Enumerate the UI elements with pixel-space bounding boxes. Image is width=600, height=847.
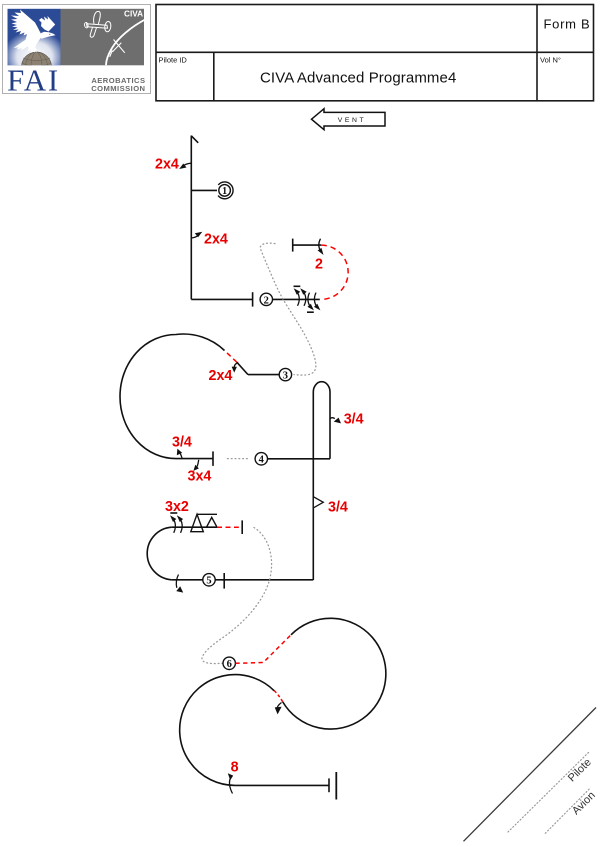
header table — [156, 5, 594, 101]
final bar — [335, 772, 337, 800]
end tick — [212, 451, 214, 466]
spin triangles — [191, 514, 217, 531]
svg-text:VENT: VENT — [338, 117, 367, 124]
connector 3 to 4 — [228, 458, 250, 460]
roll arrow fig1 lower — [191, 232, 202, 238]
top exit line — [293, 244, 322, 246]
svg-text:2: 2 — [264, 295, 269, 306]
svg-text:6: 6 — [227, 659, 232, 670]
circle 2 — [260, 293, 272, 305]
svg-text:8: 8 — [231, 760, 239, 776]
svg-text:4: 4 — [259, 455, 265, 466]
svg-text:COMMISSION: COMMISSION — [91, 84, 145, 93]
connector 5 to 6 — [202, 528, 272, 664]
down line — [312, 392, 314, 580]
svg-text:Form B: Form B — [544, 17, 591, 32]
diagonal — [237, 362, 248, 374]
svg-text:2x4: 2x4 — [204, 232, 228, 248]
roll arrow fig1 upper — [179, 163, 191, 169]
red dashed segment on lower loop — [274, 690, 283, 702]
half roll arrow near cross — [277, 703, 282, 711]
svg-text:3/4: 3/4 — [172, 435, 192, 451]
exit horizontal — [191, 298, 252, 300]
loop — [120, 334, 225, 459]
end tick — [252, 292, 254, 306]
svg-text:2x4: 2x4 — [209, 368, 233, 384]
arrow up — [180, 454, 182, 459]
red dashed inverted — [217, 526, 239, 528]
rolls 3x2 — [173, 518, 182, 533]
signature diagonals — [464, 708, 597, 842]
svg-text:Pilote ID: Pilote ID — [159, 56, 188, 65]
fig4 end tick — [223, 573, 225, 589]
entry line — [273, 298, 320, 300]
roll arrow on bottom line — [176, 575, 178, 588]
glow behind globe — [3, 30, 67, 84]
circle 6 — [223, 657, 235, 669]
end tick — [328, 778, 330, 792]
svg-text:1: 1 — [222, 186, 227, 197]
circle 3 — [279, 368, 291, 380]
flick triangle on down line — [313, 497, 323, 508]
svg-text:FAI: FAI — [7, 62, 60, 97]
bottom line — [171, 579, 313, 581]
svg-text:3: 3 — [283, 371, 288, 382]
circle 1 (double) — [218, 182, 233, 199]
roll arrows down-right pair — [308, 293, 317, 308]
eagle left wing + body — [11, 10, 41, 53]
arrow on diagonal — [234, 363, 238, 368]
exit line — [235, 784, 329, 786]
roll arrow on exit — [229, 777, 232, 794]
upper loop — [283, 618, 386, 729]
up line — [329, 392, 331, 459]
svg-text:5: 5 — [206, 576, 211, 587]
FAI blue panel — [8, 9, 61, 66]
circle 4 — [255, 453, 267, 465]
plane fuselage — [84, 11, 111, 37]
svg-text:3x4: 3x4 — [188, 469, 212, 485]
svg-text:CIVA Advanced Programme4: CIVA Advanced Programme4 — [260, 70, 456, 87]
connector 2 to 3 — [260, 243, 316, 375]
VENT wind arrow — [312, 109, 386, 130]
svg-text:2: 2 — [315, 257, 323, 273]
entry line — [268, 458, 331, 460]
svg-text:2x4: 2x4 — [155, 157, 179, 173]
globe — [22, 52, 52, 82]
svg-text:3/4: 3/4 — [328, 499, 348, 515]
half roll arrow at loop top — [319, 239, 321, 252]
top line — [171, 526, 217, 528]
end tick — [241, 520, 243, 534]
lower loop — [180, 675, 275, 786]
vertical down line — [190, 136, 192, 300]
svg-text:3/4: 3/4 — [344, 412, 364, 428]
svg-text:3x2: 3x2 — [165, 499, 189, 515]
CIVA gray panel — [61, 9, 145, 66]
eagle legs — [28, 46, 37, 54]
entry tick — [191, 136, 198, 143]
half-loop red dashed arc — [321, 245, 348, 299]
eagle right wing — [39, 16, 55, 32]
swoosh — [106, 20, 145, 66]
red dashed entry — [235, 635, 291, 664]
eagle head/beak — [40, 32, 56, 39]
FAI/CIVA logo box — [3, 5, 151, 98]
quarter roll arrow on up line — [330, 417, 335, 420]
line to circle 1 — [191, 189, 217, 191]
red dashed diagonal — [225, 351, 237, 363]
small glider cross — [110, 40, 125, 57]
svg-text:CIVA: CIVA — [124, 9, 143, 18]
half loop left — [147, 527, 171, 580]
svg-text:Vol N°: Vol N° — [540, 56, 561, 65]
entry line — [248, 374, 279, 376]
roll arrows up-left pair — [297, 291, 306, 306]
hump — [313, 382, 330, 392]
eagle tail — [14, 39, 29, 51]
arrow down — [197, 460, 199, 467]
circle 5 — [203, 574, 215, 586]
eagle eye — [49, 34, 50, 35]
